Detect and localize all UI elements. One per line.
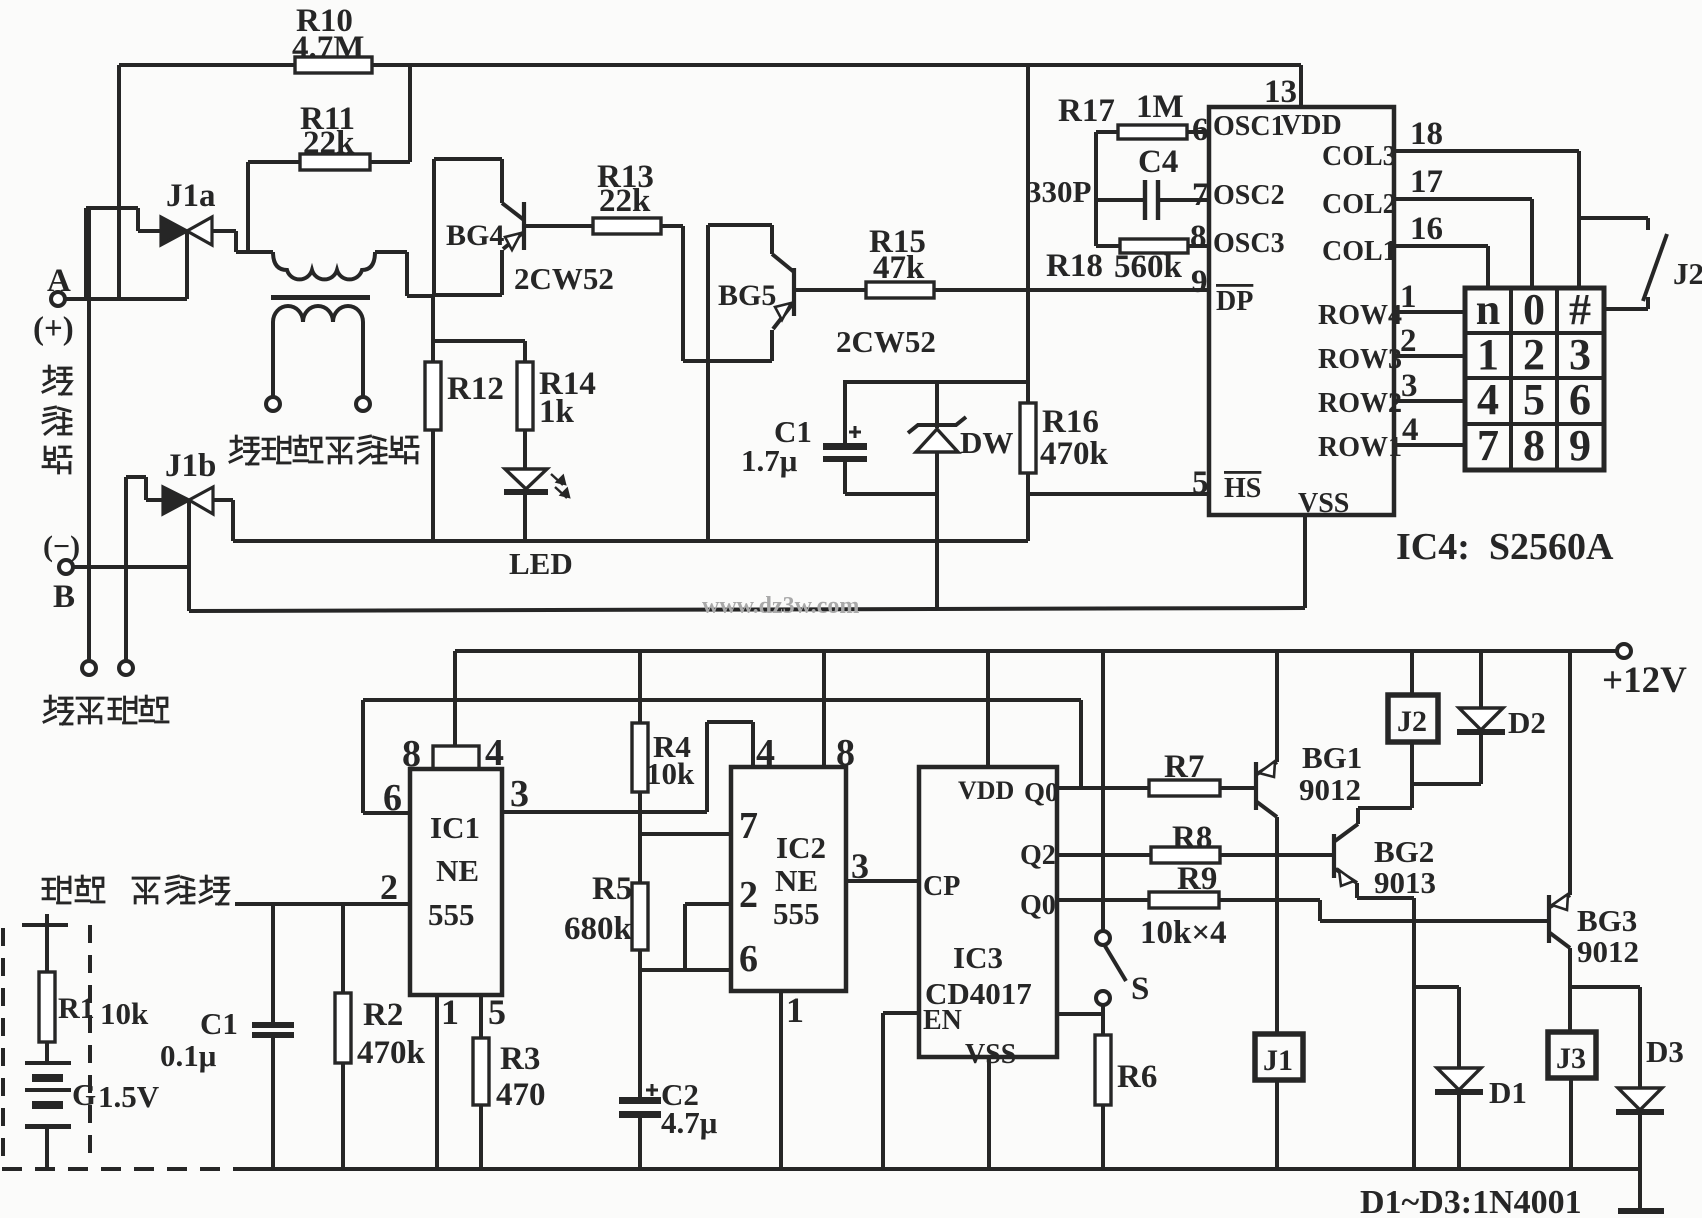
svg-text:1k: 1k <box>539 394 575 430</box>
svg-text:1: 1 <box>1400 279 1417 315</box>
relay contact J1a <box>161 178 216 245</box>
wire BG5 base to R15 <box>794 288 866 292</box>
svg-text:3: 3 <box>1569 330 1591 379</box>
resistor R17 <box>1058 89 1209 246</box>
svg-text:2: 2 <box>739 874 758 916</box>
wire D1 branch <box>1414 985 1459 989</box>
svg-text:330P: 330P <box>1026 174 1092 209</box>
svg-text:J3: J3 <box>1556 1042 1586 1075</box>
svg-text:7: 7 <box>739 805 758 847</box>
transistor BG4 box <box>434 159 504 295</box>
svg-text:22k: 22k <box>599 183 651 219</box>
wire J1b left feed <box>126 477 163 661</box>
svg-text:OSC2: OSC2 <box>1213 180 1285 211</box>
wire COL2 pin 17 <box>1394 164 1532 288</box>
wire IC2 pin 1 ground <box>781 990 804 1169</box>
wire second rail (Q0 feedback) <box>363 700 1081 813</box>
svg-text:47k: 47k <box>873 250 925 286</box>
wire LED line <box>233 539 1028 543</box>
svg-text:3: 3 <box>1401 368 1418 404</box>
svg-text:BG1: BG1 <box>1302 740 1362 775</box>
label 10kx4 <box>1140 915 1227 951</box>
resistor R4 <box>632 651 695 812</box>
wire node B <box>72 565 189 569</box>
wire R11 left lead down <box>246 162 250 252</box>
wire J1 to ground rail <box>1275 1080 1279 1169</box>
svg-text:BG5: BG5 <box>718 279 776 312</box>
svg-text:R17: R17 <box>1058 93 1115 129</box>
svg-text:n: n <box>1476 285 1500 334</box>
diode D2 <box>1457 651 1546 784</box>
svg-text:CP: CP <box>923 871 960 902</box>
svg-text:J1: J1 <box>1263 1044 1293 1077</box>
terminal recorder-out right <box>356 397 370 411</box>
LED <box>504 430 573 581</box>
svg-text:J1b: J1b <box>165 448 216 484</box>
transistor BG1 <box>1256 651 1362 817</box>
svg-text:22k: 22k <box>303 125 355 161</box>
svg-text:1.5V: 1.5V <box>98 1079 160 1114</box>
svg-text:IC3: IC3 <box>953 940 1003 975</box>
IC4 S2560A box <box>1209 107 1394 515</box>
svg-text:R1: R1 <box>58 992 95 1025</box>
resistor R13 <box>593 159 661 234</box>
switch J2 <box>1579 218 1702 309</box>
svg-text:VDD: VDD <box>958 776 1014 805</box>
wire vertical A-line up to top rail <box>117 65 121 299</box>
wire Q0 to R7 <box>1057 786 1149 790</box>
svg-text:(+): (+) <box>33 311 74 347</box>
wire D2 to J2 bottom <box>1412 782 1481 786</box>
wire A-line down to phone terminal <box>87 208 91 661</box>
wire J1a right lead to transformer <box>212 231 273 252</box>
svg-text:0.1μ: 0.1μ <box>160 1038 217 1073</box>
wire top rail from A-line to IC4 pin 13 <box>119 65 1301 107</box>
svg-text:J2: J2 <box>1397 705 1427 738</box>
wire IC2 pin 8 VDD <box>824 651 855 774</box>
svg-text:S: S <box>1131 971 1149 1007</box>
relay coil J3 <box>1548 1032 1596 1078</box>
wire IC3 to switch S <box>1057 1012 1103 1016</box>
capacitor C1 1.7u <box>741 382 867 494</box>
diode D1 <box>1435 987 1527 1169</box>
terminal phone B <box>119 661 133 675</box>
svg-text:NE: NE <box>775 863 818 898</box>
wire BG4 base to R13 <box>524 224 593 228</box>
svg-text:G: G <box>72 1077 96 1112</box>
svg-text:4: 4 <box>1477 375 1499 424</box>
svg-text:6: 6 <box>1192 112 1209 148</box>
wire ground rail dashed part <box>2 1167 235 1171</box>
svg-text:(−): (−) <box>43 530 80 563</box>
wire R12/R14 branch <box>433 341 525 362</box>
svg-text:IC4: S2560A: IC4: S2560A <box>1396 526 1614 568</box>
svg-text:2CW52: 2CW52 <box>836 324 936 359</box>
svg-text:18: 18 <box>1410 116 1443 152</box>
svg-text:17: 17 <box>1410 164 1443 200</box>
svg-text:DP: DP <box>1216 286 1253 317</box>
svg-text:6: 6 <box>1569 375 1591 424</box>
svg-text:R7: R7 <box>1164 749 1204 785</box>
wire lower line to IC4 VSS <box>189 515 1305 611</box>
svg-text:EN: EN <box>923 1005 962 1036</box>
transformer core <box>271 295 370 300</box>
svg-text:ROW4: ROW4 <box>1318 300 1402 331</box>
svg-text:8: 8 <box>1190 219 1207 255</box>
wire IC3 VSS ground <box>987 1057 991 1169</box>
svg-text:6: 6 <box>739 938 758 980</box>
label 2CW52 (BG5) <box>836 324 936 359</box>
wire J3 to ground rail <box>1569 1078 1573 1169</box>
wire D3 branch <box>1570 985 1640 989</box>
terminal +12V <box>1602 644 1687 701</box>
wire BG1 collector to J1 <box>1275 817 1279 1034</box>
svg-text:1: 1 <box>1477 330 1499 379</box>
IC1 NE555 box <box>410 769 502 995</box>
wire IC1 pin 3 to R4 node and IC2 pin 4 <box>502 722 775 815</box>
IC4 inside labels <box>1213 110 1402 519</box>
svg-text:470: 470 <box>496 1077 546 1113</box>
svg-text:Q0: Q0 <box>1024 777 1059 807</box>
resistor R12 <box>425 362 504 430</box>
wire Q2 to R8 <box>1057 853 1151 857</box>
wire J1a common down to node A <box>185 231 189 299</box>
svg-text:R18: R18 <box>1046 248 1103 284</box>
resistor R14 <box>517 362 596 430</box>
svg-text:www.dz3w.com: www.dz3w.com <box>702 593 859 619</box>
svg-text:OSC3: OSC3 <box>1213 228 1285 259</box>
resistor R6 <box>1095 1005 1157 1169</box>
transformer primary winding <box>273 252 434 296</box>
svg-text:+12V: +12V <box>1602 660 1687 701</box>
svg-text:VSS: VSS <box>1298 488 1349 519</box>
svg-text:Q0: Q0 <box>1020 890 1056 921</box>
capacitor C4 <box>1026 144 1209 220</box>
capacitor C2 4.7u <box>619 1077 718 1169</box>
wire IC3 VDD <box>986 651 990 767</box>
svg-text:560k: 560k <box>1114 249 1183 285</box>
battery G 1.5V <box>25 1042 160 1169</box>
wire COL3 pin 18 <box>1394 116 1579 288</box>
svg-text:DW: DW <box>960 425 1013 460</box>
svg-text:4.7M: 4.7M <box>292 30 364 66</box>
svg-text:COL2: COL2 <box>1322 189 1397 220</box>
wire ground rail <box>235 1167 1640 1171</box>
terminal A <box>33 263 74 347</box>
svg-text:8: 8 <box>836 732 855 774</box>
dashed accessory box left <box>1 928 5 1160</box>
label 接线路 <box>43 366 71 473</box>
svg-text:470k: 470k <box>1040 436 1109 472</box>
svg-text:9013: 9013 <box>1374 865 1436 900</box>
wire R11 right lead up to top rail <box>408 65 412 162</box>
svg-text:J2: J2 <box>1673 256 1702 291</box>
svg-text:BG2: BG2 <box>1374 834 1434 869</box>
svg-text:C4: C4 <box>1138 144 1178 180</box>
IC3 CD4017 box <box>919 767 1059 1070</box>
svg-text:D3: D3 <box>1646 1034 1684 1069</box>
svg-text:ROW1: ROW1 <box>1318 432 1402 463</box>
svg-text:7: 7 <box>1477 421 1499 470</box>
svg-text:0: 0 <box>1523 285 1545 334</box>
svg-text:9012: 9012 <box>1299 772 1361 807</box>
resistor R7 <box>1149 749 1220 796</box>
svg-text:3: 3 <box>510 773 529 815</box>
label 2CW52 (BG4) <box>514 261 614 296</box>
wire IC2 pin 3 to IC3 CP <box>846 846 919 886</box>
transformer secondary winding <box>273 306 363 397</box>
wire J2 bottom to BG2 collector <box>1358 742 1412 824</box>
wire ROW3 pin 2 <box>1394 323 1465 359</box>
svg-text:2: 2 <box>380 867 398 907</box>
svg-text:555: 555 <box>773 896 820 931</box>
svg-text:HS: HS <box>1224 473 1261 504</box>
svg-text:ROW3: ROW3 <box>1318 344 1402 375</box>
terminal recorder-out left <box>266 397 280 411</box>
svg-text:470k: 470k <box>357 1035 426 1071</box>
svg-text:5: 5 <box>1523 375 1545 424</box>
svg-text:R16: R16 <box>1042 404 1099 440</box>
wire R9 to BG3 base <box>1219 900 1547 921</box>
wire +12V rail <box>455 649 1617 653</box>
wire J1b right lead <box>213 500 233 541</box>
svg-text:7: 7 <box>1192 177 1209 213</box>
capacitor C1 0.1u <box>160 904 294 1169</box>
svg-text:C1: C1 <box>200 1006 238 1041</box>
wire ROW2 pin 3 <box>1394 368 1465 404</box>
svg-text:5: 5 <box>1192 465 1209 501</box>
svg-text:6: 6 <box>383 777 402 819</box>
switch S <box>1096 651 1149 1007</box>
relay coil J1 <box>1255 1034 1303 1080</box>
svg-text:BG4: BG4 <box>446 219 504 252</box>
transistor BG3 <box>1549 651 1639 969</box>
svg-text:OSC1: OSC1 <box>1213 111 1285 142</box>
resistor R3 <box>473 992 546 1169</box>
resistor R9 <box>1149 861 1219 908</box>
svg-text:4: 4 <box>1402 412 1419 448</box>
wire IC2 pin 2 jog <box>685 874 758 970</box>
wire IC1 pin 1 ground <box>437 992 459 1169</box>
label 接电话机 <box>44 696 168 724</box>
wire IC1 pin 6 <box>363 777 410 819</box>
svg-text:4.7μ: 4.7μ <box>661 1105 718 1140</box>
wire J2 from rail <box>1410 651 1414 695</box>
svg-text:NE: NE <box>436 853 479 888</box>
svg-text:2CW52: 2CW52 <box>514 261 614 296</box>
wire C1 bottom to DW <box>845 492 937 496</box>
transistor BG5 box <box>683 225 776 361</box>
wire BG3 collector to J3 <box>1568 948 1572 1032</box>
svg-text:VDD: VDD <box>1281 110 1342 141</box>
terminal B <box>43 530 80 615</box>
relay contact J1b <box>163 448 216 514</box>
zener DW <box>908 382 1013 608</box>
resistor R2 <box>335 904 426 1169</box>
wire BG5 emitter down to LED line <box>706 361 710 541</box>
svg-text:1: 1 <box>441 992 459 1032</box>
wire IC2 pin 6 / R5 bottom <box>640 938 758 1097</box>
keypad grid <box>1465 288 1604 470</box>
wire Q0' to R9 <box>1057 898 1149 902</box>
svg-text:LED: LED <box>509 546 573 581</box>
IC1 pins 8/4 box <box>402 732 504 775</box>
wire IC1 VDD drop <box>453 651 457 746</box>
terminal bar below D3 <box>1618 1208 1664 1214</box>
label 接录音机输出 <box>230 436 418 464</box>
wire R8 to BG2 base <box>1220 853 1332 857</box>
resistor R8 <box>1151 820 1220 863</box>
wire C1/DW top <box>843 380 1028 384</box>
resistor R5 <box>564 871 648 950</box>
svg-text:1M: 1M <box>1136 89 1184 125</box>
resistor R11 <box>248 101 410 170</box>
relay coil J2 <box>1388 695 1438 742</box>
svg-text:3: 3 <box>851 846 869 886</box>
svg-text:R3: R3 <box>500 1041 540 1077</box>
label 报警线 <box>133 876 228 904</box>
svg-text:R12: R12 <box>447 371 504 407</box>
svg-text:1: 1 <box>786 990 804 1030</box>
transistor BG4 <box>502 202 524 250</box>
wire R13 to BG5 <box>661 226 683 361</box>
resistor R18 <box>1046 239 1209 285</box>
wire alarm line to IC1 pin 2 <box>235 867 410 907</box>
wire COL1 pin 16 <box>1394 211 1488 288</box>
svg-text:R2: R2 <box>363 997 403 1033</box>
svg-text:9: 9 <box>1569 421 1591 470</box>
svg-text:16: 16 <box>1410 211 1443 247</box>
IC4 pin labels left <box>1190 112 1209 501</box>
svg-text:IC2: IC2 <box>776 830 826 865</box>
svg-text:D1: D1 <box>1489 1075 1527 1110</box>
svg-text:1.7μ: 1.7μ <box>741 443 798 478</box>
wire R7 to BG1 base <box>1220 786 1255 790</box>
svg-text:10k×4: 10k×4 <box>1140 915 1227 951</box>
resistor R15 <box>866 224 934 298</box>
wire ROW4 pin 1 <box>1394 279 1465 315</box>
IC4 pin 13 <box>1264 74 1297 110</box>
svg-text:R9: R9 <box>1177 861 1217 897</box>
diode D3 <box>1616 987 1684 1212</box>
svg-text:R6: R6 <box>1117 1059 1157 1095</box>
svg-text:COL1: COL1 <box>1322 236 1397 267</box>
resistor R16 <box>1020 403 1109 473</box>
wire BG4 emitter to R12 <box>431 295 435 541</box>
wire main vertical at x1028 <box>1026 65 1030 403</box>
svg-text:R5: R5 <box>592 871 632 907</box>
svg-text:9012: 9012 <box>1577 934 1639 969</box>
terminal phone A <box>82 661 96 675</box>
wire J1b common down <box>187 500 191 611</box>
svg-text:555: 555 <box>428 897 475 932</box>
svg-text:J1a: J1a <box>166 178 216 214</box>
svg-text:A: A <box>47 263 71 299</box>
svg-text:IC1: IC1 <box>430 810 480 845</box>
resistor R1 <box>39 972 149 1042</box>
svg-text:D2: D2 <box>1508 705 1546 740</box>
wire ROW1 pin 4 <box>1394 412 1465 448</box>
svg-text:10k: 10k <box>100 996 149 1031</box>
wire R4-R5 node to IC2 pin 7 <box>640 805 758 883</box>
svg-text:5: 5 <box>488 992 506 1032</box>
svg-text:9: 9 <box>1191 264 1208 300</box>
wire battery branch top <box>22 914 68 972</box>
svg-text:ROW2: ROW2 <box>1318 388 1402 419</box>
label IC4: S2560A <box>1396 526 1614 568</box>
keypad digits <box>1476 285 1591 470</box>
svg-text:BG3: BG3 <box>1577 903 1637 938</box>
wire J1a left feed <box>86 208 161 300</box>
svg-text:2: 2 <box>1523 330 1545 379</box>
transistor BG5 <box>772 254 794 329</box>
svg-text:#: # <box>1569 285 1591 334</box>
svg-text:13: 13 <box>1264 74 1297 110</box>
svg-text:680k: 680k <box>564 911 633 947</box>
wire R16 bottom to HS and LED line <box>1028 473 1209 541</box>
transistor BG2 <box>1334 824 1436 900</box>
watermark <box>702 593 859 619</box>
resistor R10 <box>292 3 372 73</box>
dashed accessory box right <box>88 925 92 1160</box>
svg-text:D1~D3:1N4001: D1~D3:1N4001 <box>1360 1184 1582 1218</box>
svg-text:8: 8 <box>1523 421 1545 470</box>
svg-text:Q2: Q2 <box>1020 840 1056 871</box>
IC2 NE555 box <box>731 767 846 991</box>
svg-text:10k: 10k <box>646 756 695 791</box>
svg-text:B: B <box>53 579 75 615</box>
wire IC3 EN <box>883 1013 919 1169</box>
label D1~D3:1N4001 <box>1360 1184 1582 1218</box>
wire R15 to IC4 DP pin 9 <box>934 288 1209 292</box>
node A wire <box>64 297 187 301</box>
wire BG2 emitter path <box>1357 883 1414 1169</box>
svg-text:2: 2 <box>1400 323 1417 359</box>
svg-text:R8: R8 <box>1172 820 1212 856</box>
svg-text:COL3: COL3 <box>1322 141 1397 172</box>
label 附件 <box>43 876 104 903</box>
